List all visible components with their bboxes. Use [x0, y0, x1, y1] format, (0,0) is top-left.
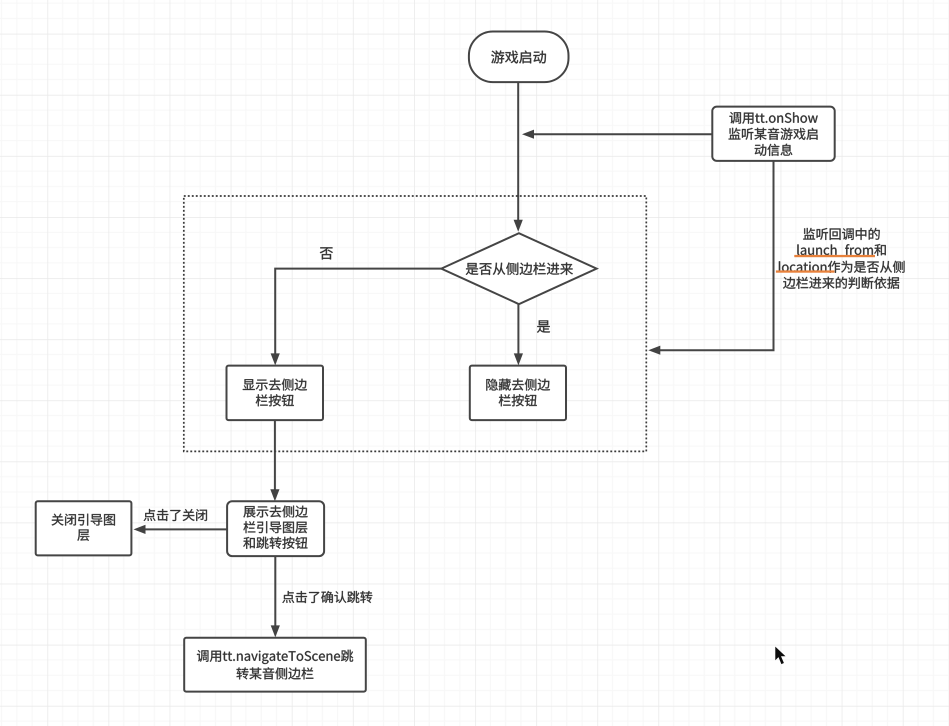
label: 否 (no branch): [320, 247, 333, 259]
mouse cursor pointer: [775, 647, 785, 665]
process box: 展示去侧边栏引导图层和跳转按钮: [227, 501, 324, 556]
process box: 显示去侧边栏按钮: [227, 366, 324, 421]
label: 点击了关闭: [144, 509, 207, 521]
label: 点击了确认跳转: [282, 591, 372, 603]
orange underline under launch_from: [794, 255, 875, 257]
orange underline under location: [776, 270, 835, 272]
process box: 调用tt.onShow 监听某音游戏启动信息: [712, 107, 834, 161]
wire: 展示 box to navigate box: [271, 556, 280, 637]
process box: 隐藏去侧边栏按钮: [470, 366, 566, 421]
wire: decision "no" branch to 显示 box: [271, 269, 442, 366]
decision diamond: 是否从侧边栏进来: [441, 233, 596, 304]
wire: decision "yes" branch to 隐藏 box: [514, 304, 523, 365]
dotted container box: [184, 196, 647, 451]
process box: 关闭引导图层: [36, 501, 132, 555]
wire: tt.onShow box to start-decision line (arrow pointing left): [522, 130, 712, 139]
wire: tt.onShow box down and left into dotted container: [648, 161, 773, 355]
annotation note: 监听回调中的 launch_from 和 location 判断依据: [776, 228, 905, 289]
label: 是 (yes branch): [537, 320, 550, 332]
process box: 调用tt.navigateToScene跳转某音侧边栏: [184, 638, 366, 692]
wire: 显示 box to 展示 box: [270, 420, 279, 501]
terminator node: 游戏启动: [469, 32, 569, 83]
wire: start node to decision diamond: [514, 82, 523, 232]
wire: 展示 box to 关闭 box (arrow pointing left): [134, 525, 228, 534]
